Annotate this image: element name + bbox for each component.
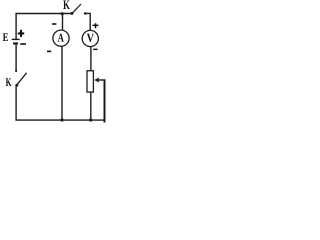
label - voltmeter bottom [93, 49, 97, 51]
label K top switch [63, 0, 70, 9]
wire pivot down to bottom-left corner and bottom run [16, 86, 105, 121]
switch K blade (bottom-left) [17, 73, 27, 85]
node junction dot ammeter bottom [60, 118, 63, 121]
node switch K upper contact [15, 70, 17, 72]
wire battery to switch contact [15, 45, 17, 72]
ammeter U1 circle [53, 30, 69, 46]
voltmeter U2 circle [82, 30, 98, 46]
wire voltmeter bottom lead to rheostat top [90, 47, 92, 71]
rheostat slider arrowhead [94, 77, 99, 82]
label A ammeter [58, 34, 64, 42]
label + voltmeter [93, 23, 99, 28]
battery E short negative plate [13, 42, 18, 44]
node switch K pivot dot [15, 84, 18, 87]
label K bottom switch [6, 78, 12, 86]
label - ammeter top [52, 23, 56, 25]
resistor R1 rheostat body rectangle [87, 71, 93, 92]
label + battery [18, 30, 24, 37]
node switch K top fixed contact [84, 12, 87, 15]
wire ammeter top lead [62, 14, 64, 31]
wire rheostat slider tail [96, 79, 105, 81]
node junction dot rheostat bottom [89, 118, 92, 121]
label E [3, 33, 8, 41]
label - ammeter bottom [47, 51, 51, 53]
wire top-left run and left drop to battery [16, 14, 72, 40]
wire ammeter bottom lead [61, 46, 63, 120]
switch K blade (top) [72, 4, 81, 13]
wire rheostat bottom lead [90, 92, 92, 120]
wire top-right contact run and right drop to voltmeter [85, 13, 90, 30]
wire right side down to bottom-right corner [104, 79, 106, 122]
label - battery [20, 43, 26, 45]
label V voltmeter [87, 34, 94, 42]
node junction dot ammeter top [61, 12, 64, 15]
battery E long positive plate [12, 38, 20, 40]
node switch K top pivot dot [71, 12, 74, 15]
